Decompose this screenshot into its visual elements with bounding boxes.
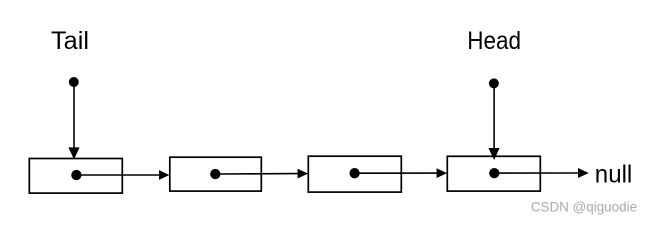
Head pointer wire (vertical arrow to node 4) xyxy=(493,83,495,149)
wire node 2 to node 3 xyxy=(215,173,298,175)
svg-text:CSDN @qiguodie: CSDN @qiguodie xyxy=(531,200,637,215)
wire node 3 to node 4 xyxy=(355,172,438,174)
wire node 1 to node 2 xyxy=(76,174,159,176)
svg-text:Head: Head xyxy=(467,28,521,55)
Tail pointer dot xyxy=(69,77,79,87)
node 2 box xyxy=(170,157,261,191)
node 1 dot xyxy=(71,170,81,180)
wire node 4 to null xyxy=(494,172,579,174)
svg-text:Tail: Tail xyxy=(51,28,89,55)
node 4 box xyxy=(447,156,540,191)
svg-text:null: null xyxy=(595,162,633,189)
Head pointer dot xyxy=(489,78,499,88)
node 1 box xyxy=(29,159,122,194)
Tail pointer wire (vertical arrow to node 1) xyxy=(73,82,75,148)
node 2 dot xyxy=(210,169,220,179)
node 4 dot xyxy=(489,168,499,178)
node 3 box xyxy=(308,156,401,192)
node 3 dot xyxy=(349,168,359,178)
